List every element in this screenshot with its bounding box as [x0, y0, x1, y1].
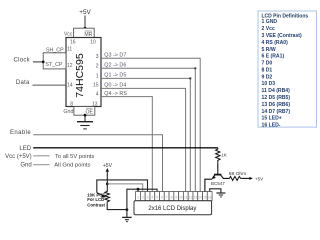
- svg-text:8 D1: 8 D1: [262, 67, 273, 73]
- node D5 corner: [189, 77, 191, 79]
- svg-text:3: 3: [147, 195, 149, 199]
- svg-text:4: 4: [151, 195, 153, 199]
- wire Clock input: [33, 61, 43, 63]
- svg-text:+5V: +5V: [79, 9, 91, 16]
- svg-text:2: 2: [142, 195, 144, 199]
- LCD pin definitions legend box: [258, 11, 317, 127]
- svg-text:Enable: Enable: [10, 130, 31, 136]
- svg-text:15: 15: [203, 195, 207, 199]
- svg-text:13: 13: [194, 195, 198, 199]
- wire Data input to pin 14: [33, 84, 67, 86]
- LCD pin header: [136, 192, 212, 201]
- svg-text:Gnd: Gnd: [20, 162, 31, 168]
- svg-text:Q1 -> D5: Q1 -> D5: [104, 73, 126, 79]
- wire +5V down to pot: [106, 172, 108, 191]
- wire pot bottom to ground rail: [107, 203, 127, 209]
- svg-text:14: 14: [198, 195, 202, 199]
- IC U1 74HC595 body: [66, 38, 101, 107]
- svg-text:Gnd: Gnd: [63, 109, 73, 115]
- svg-text:68 Ohm: 68 Ohm: [229, 171, 246, 177]
- svg-text:11 D4 (RB4): 11 D4 (RB4): [262, 88, 291, 94]
- svg-text:SH_CP: SH_CP: [46, 47, 64, 53]
- svg-text:7: 7: [166, 195, 168, 199]
- wire LCD pin 16 to ground: [210, 189, 221, 193]
- svg-text:11: 11: [67, 47, 72, 53]
- svg-text:13 D6 (RB6): 13 D6 (RB6): [262, 102, 291, 108]
- node Clock junction: [42, 61, 45, 64]
- arrow up to +5V: [106, 168, 109, 172]
- svg-text:10: 10: [90, 39, 96, 45]
- svg-text:7 D0: 7 D0: [262, 61, 273, 67]
- ground (IC): [77, 121, 93, 123]
- svg-text:12 D5 (RB5): 12 D5 (RB5): [262, 95, 291, 101]
- wire 68 Ohm to +5V: [243, 177, 251, 179]
- svg-text:9: 9: [175, 195, 177, 199]
- resistor R3 68 Ohm: [229, 176, 243, 180]
- wire to LCD pin 1: [137, 189, 139, 191]
- svg-text:OE: OE: [85, 109, 93, 115]
- wire 1K to base: [217, 164, 219, 174]
- LCD module body: [134, 201, 212, 215]
- wire pot wiper to LCD pin 3 (VEE): [97, 180, 148, 193]
- MR pin box (pins 16,10): [74, 28, 95, 37]
- svg-text:+5V: +5V: [255, 176, 263, 181]
- node +5V/Vcc/MR junction: [84, 27, 87, 30]
- ground (LCD left): [122, 216, 132, 218]
- svg-text:+5V: +5V: [103, 163, 113, 169]
- svg-text:2 Vcc: 2 Vcc: [262, 26, 275, 32]
- svg-text:4: 4: [96, 92, 99, 98]
- svg-text:10: 10: [179, 195, 183, 199]
- svg-text:Q0 -> D4: Q0 -> D4: [104, 83, 126, 89]
- svg-text:16: 16: [208, 195, 212, 199]
- svg-text:3: 3: [96, 54, 99, 60]
- svg-text:3 VEE (Contrast): 3 VEE (Contrast): [262, 33, 302, 39]
- wire Vcc legend stub: [33, 155, 49, 157]
- svg-text:1 GND: 1 GND: [262, 19, 278, 25]
- wire Q2 to D6: [101, 68, 195, 191]
- LCD pin numbers 1-16: [137, 195, 212, 199]
- wire +5V to MR box: [84, 16, 86, 29]
- svg-text:2: 2: [96, 64, 99, 70]
- SH_CP/ST_CP pin box (pins 11,12): [43, 53, 66, 69]
- svg-text:1: 1: [96, 74, 99, 80]
- wire +5V to LCD pin 2: [107, 184, 142, 192]
- svg-text:5 R/W: 5 R/W: [262, 47, 276, 53]
- transistor Q1 BC547: [214, 174, 221, 176]
- svg-text:11: 11: [184, 195, 188, 199]
- svg-text:ST_CP: ST_CP: [45, 62, 63, 68]
- svg-text:4 RS (RA0): 4 RS (RA0): [262, 40, 289, 46]
- svg-text:Q2 -> D6: Q2 -> D6: [104, 63, 126, 69]
- wire Q1 to D5: [101, 78, 190, 191]
- svg-text:Clock: Clock: [13, 58, 30, 64]
- wire Enable to LCD pin 6: [33, 135, 162, 192]
- node OE/ground junction: [84, 114, 87, 117]
- svg-text:LED: LED: [19, 146, 31, 152]
- svg-text:6 E (RA1): 6 E (RA1): [262, 54, 285, 60]
- svg-text:15: 15: [93, 83, 99, 89]
- svg-text:2x16 LCD Display: 2x16 LCD Display: [148, 206, 196, 212]
- wire Gnd legend stub: [33, 164, 49, 166]
- pot wiper arrow: [97, 193, 103, 196]
- wire OE box to ground: [84, 115, 86, 121]
- node pot/ground junction: [126, 208, 129, 211]
- svg-text:Data: Data: [16, 80, 30, 86]
- svg-text:12: 12: [189, 195, 193, 199]
- svg-text:BC547: BC547: [211, 181, 225, 186]
- svg-text:Vcc (+5V): Vcc (+5V): [5, 154, 32, 160]
- svg-text:16: 16: [70, 39, 76, 45]
- ground (backlight): [216, 192, 225, 194]
- svg-text:For LCD: For LCD: [87, 197, 104, 202]
- svg-text:1K: 1K: [221, 152, 227, 157]
- svg-text:Contrast: Contrast: [87, 203, 105, 208]
- svg-text:9 D2: 9 D2: [262, 74, 273, 80]
- svg-text:All Gnd points: All Gnd points: [54, 162, 90, 168]
- svg-text:14 D7 (RB7): 14 D7 (RB7): [262, 109, 291, 115]
- wire LED control line: [33, 147, 218, 149]
- wire Q3 to D7: [101, 58, 200, 191]
- svg-text:To all 5V points: To all 5V points: [55, 154, 94, 160]
- svg-text:8: 8: [171, 195, 173, 199]
- resistor R1 1K: [216, 148, 220, 164]
- svg-text:1: 1: [137, 195, 139, 199]
- svg-text:6: 6: [161, 195, 163, 199]
- node +5V / LCD Vcc junction: [106, 183, 109, 186]
- svg-text:8: 8: [70, 102, 73, 108]
- svg-text:10 D3: 10 D3: [262, 81, 276, 87]
- potentiometer R2 10K body: [105, 191, 110, 204]
- svg-text:16 LED-: 16 LED-: [262, 123, 281, 129]
- wire Q4 to RS: [101, 97, 152, 192]
- svg-text:Q4 -> RS: Q4 -> RS: [104, 91, 127, 97]
- svg-text:12: 12: [67, 63, 73, 69]
- wire ground bus to LCD pins 1,5: [127, 189, 157, 217]
- arrow right to +5V: [249, 177, 252, 180]
- wire Q0 to D4: [101, 88, 186, 191]
- svg-text:Vcc: Vcc: [64, 31, 73, 37]
- svg-text:Q3 -> D7: Q3 -> D7: [104, 52, 126, 58]
- OE pin box (pins 8,13): [74, 107, 95, 116]
- svg-text:74HC595: 74HC595: [74, 53, 86, 98]
- node D6 corner: [194, 67, 196, 69]
- node ground/pin1 junction: [137, 188, 140, 191]
- svg-text:15 LED+: 15 LED+: [262, 116, 282, 122]
- svg-text:14: 14: [67, 83, 73, 89]
- svg-text:5: 5: [156, 195, 158, 199]
